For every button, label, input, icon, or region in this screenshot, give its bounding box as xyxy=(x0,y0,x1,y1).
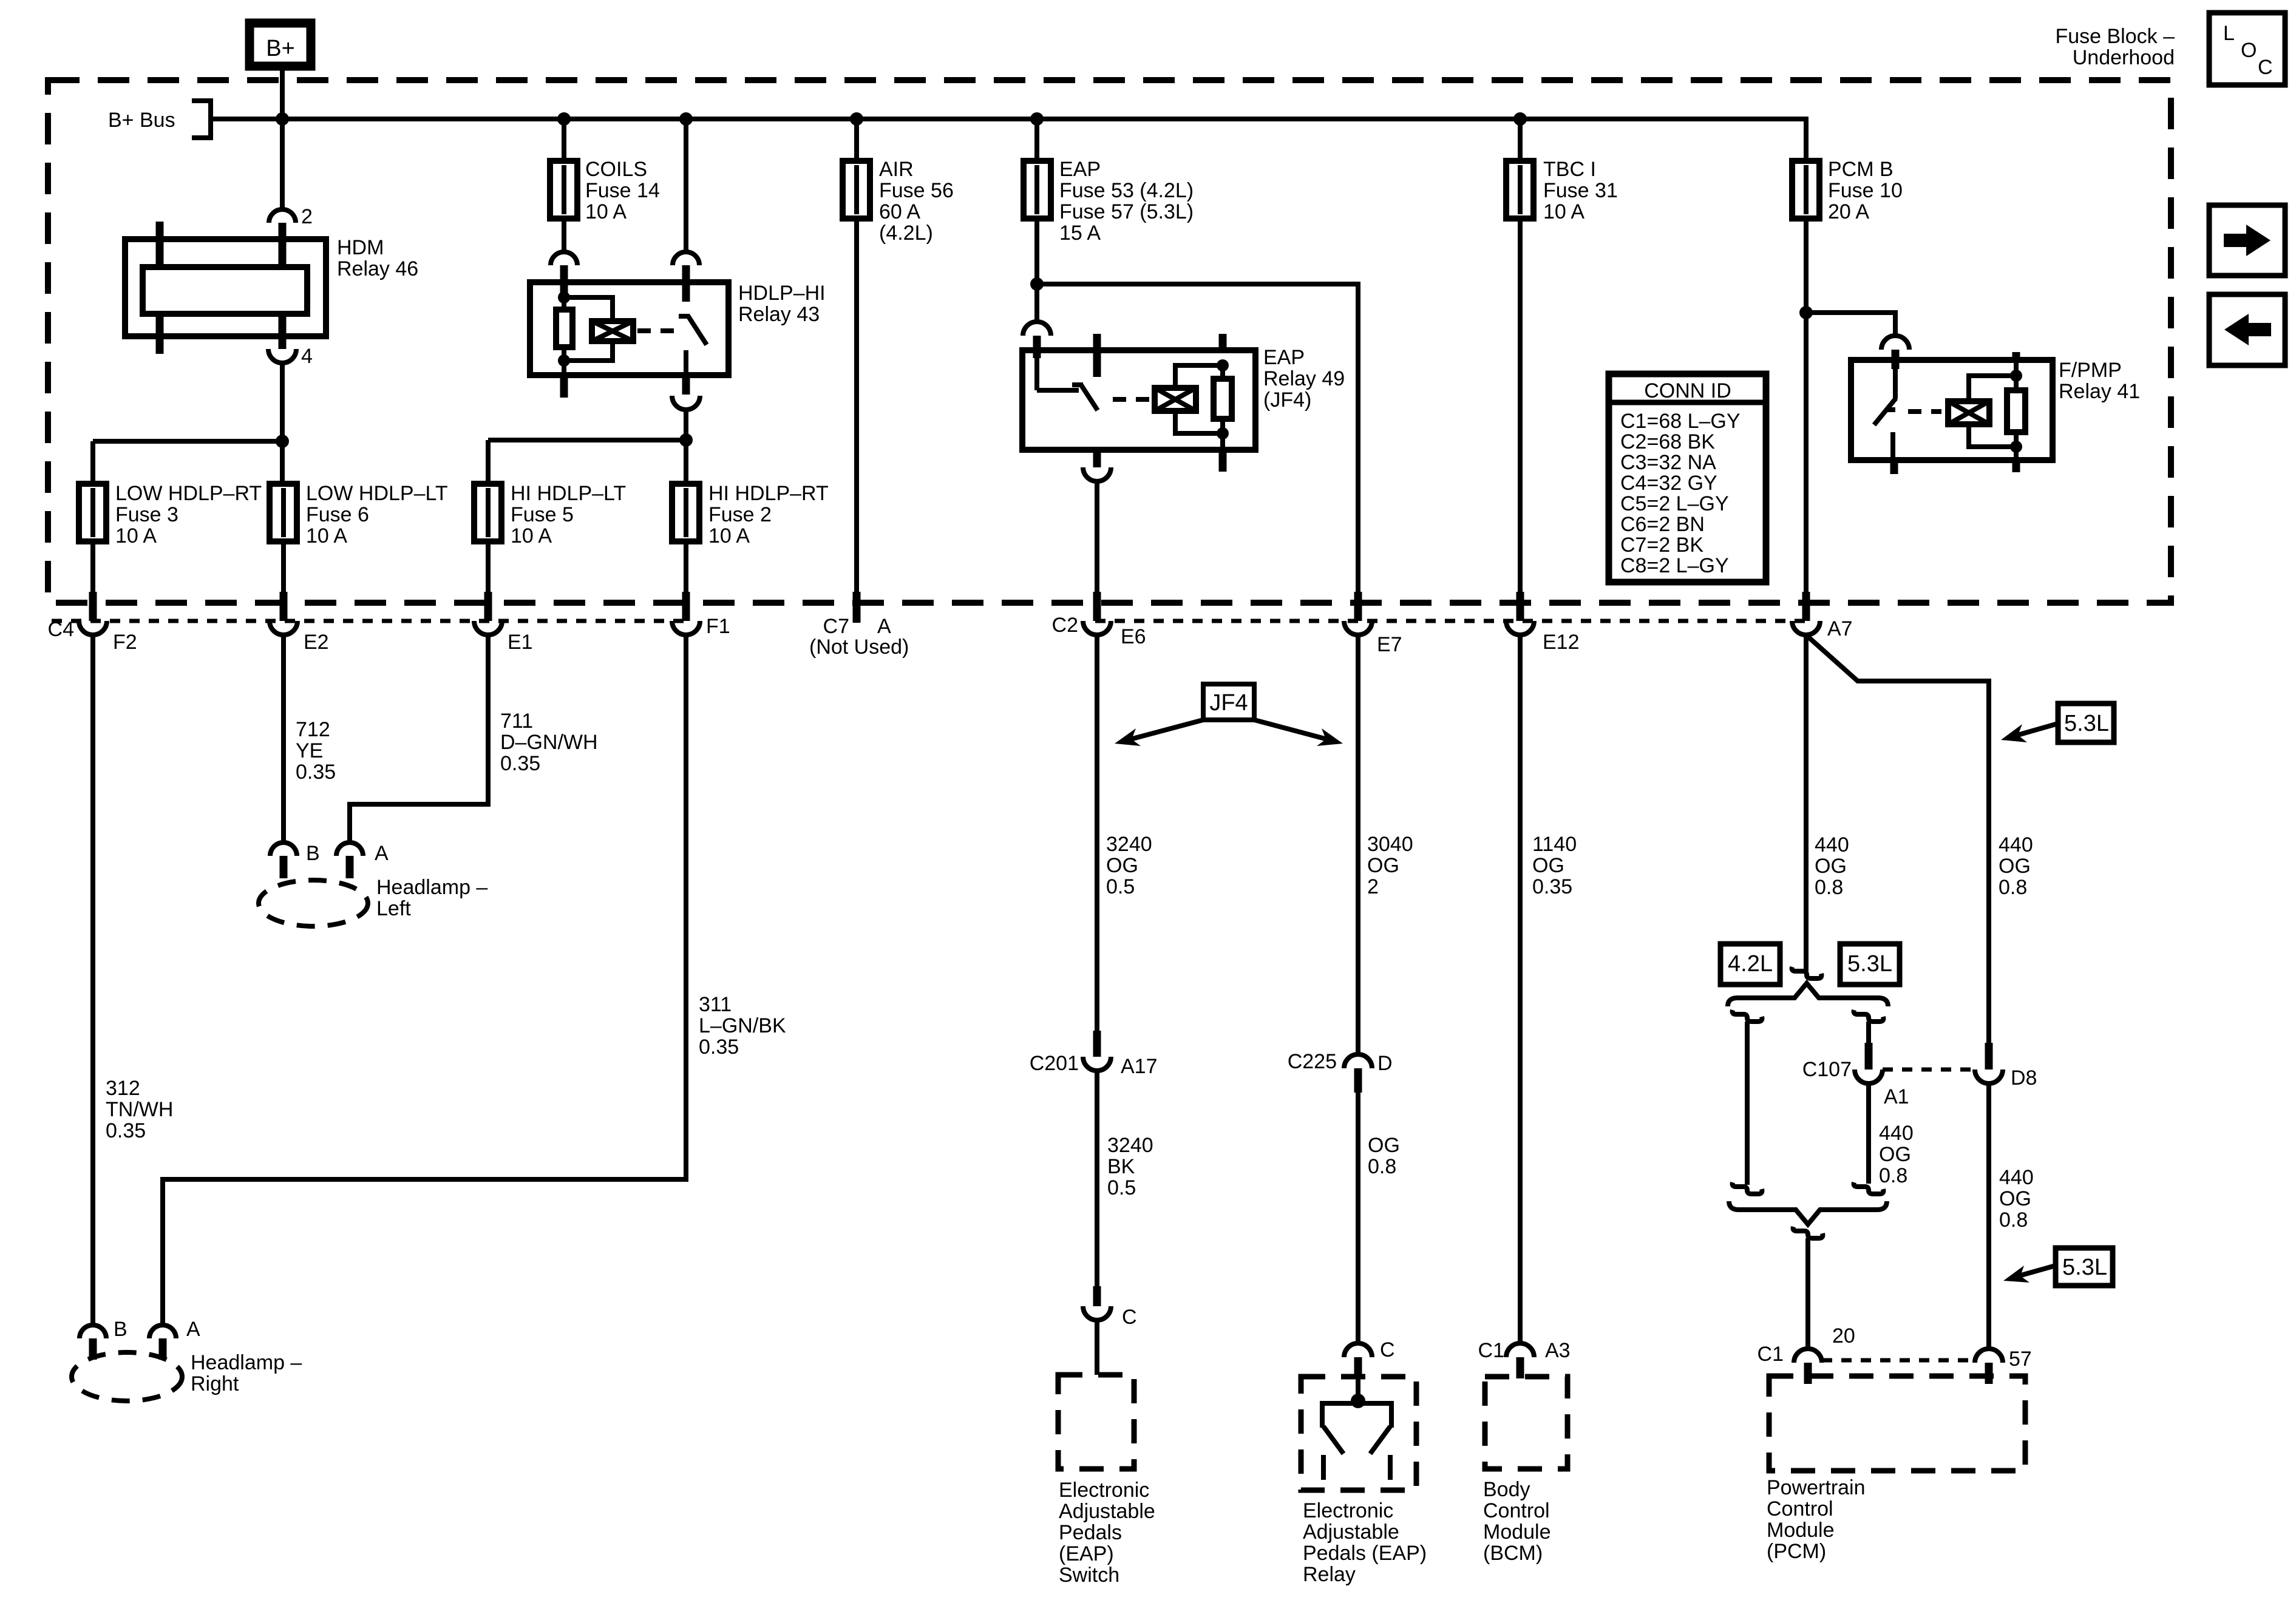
svg-text:OG: OG xyxy=(1367,854,1399,877)
LOC box xyxy=(2209,13,2285,85)
svg-text:(BCM): (BCM) xyxy=(1483,1542,1543,1565)
PCM box xyxy=(1769,1376,2025,1471)
B+ terminal box xyxy=(250,23,311,66)
svg-text:15 A: 15 A xyxy=(1059,222,1101,245)
connector E1 xyxy=(474,592,533,654)
svg-text:B+: B+ xyxy=(266,36,295,61)
engine split brace xyxy=(1728,983,1888,1006)
headlamp right body xyxy=(72,1351,302,1401)
wire C225 down to EAP relay connector xyxy=(1356,1093,1360,1343)
svg-text:0.8: 0.8 xyxy=(1999,876,2027,899)
left arrow box xyxy=(2209,294,2285,365)
svg-text:OG: OG xyxy=(1999,1187,2031,1210)
svg-text:3240: 3240 xyxy=(1106,833,1152,856)
svg-text:LOW HDLP–LT: LOW HDLP–LT xyxy=(306,482,448,505)
junction bus/coils fuse xyxy=(557,112,571,126)
wire label OG 0.8 xyxy=(1368,1134,1400,1178)
svg-text:Relay 49: Relay 49 xyxy=(1263,367,1345,390)
svg-text:COILS: COILS xyxy=(585,158,647,181)
svg-text:C225: C225 xyxy=(1288,1050,1337,1073)
Fuse Block label xyxy=(2055,25,2175,69)
svg-text:0.35: 0.35 xyxy=(699,1036,739,1059)
junction bus/eap fuse xyxy=(1030,112,1044,126)
svg-text:Underhood: Underhood xyxy=(2073,46,2175,69)
svg-text:Fuse Block –: Fuse Block – xyxy=(2055,25,2175,48)
svg-text:10 A: 10 A xyxy=(306,524,347,547)
wire bus to COILS fuse xyxy=(562,119,566,161)
svg-text:PCM B: PCM B xyxy=(1828,158,1894,181)
wire label 440 OG 0.8 lower right xyxy=(1999,1166,2034,1232)
svg-text:(Not Used): (Not Used) xyxy=(809,636,909,659)
wire A7 down to engine split xyxy=(1804,635,1809,971)
connector EAP relay input pin xyxy=(1023,322,1051,336)
wire into EAP switch xyxy=(1095,1320,1099,1375)
svg-text:C1=68 L–GY: C1=68 L–GY xyxy=(1620,410,1741,433)
svg-text:OG: OG xyxy=(1999,855,2031,878)
svg-text:57: 57 xyxy=(2009,1347,2032,1371)
svg-text:E1: E1 xyxy=(508,631,533,654)
svg-text:Relay 46: Relay 46 xyxy=(337,257,418,280)
wire relay43 output down xyxy=(684,410,688,484)
svg-text:CONN ID: CONN ID xyxy=(1644,379,1731,402)
svg-text:440: 440 xyxy=(1879,1122,1914,1145)
wire label 440 OG 0.8 right xyxy=(1999,833,2033,899)
svg-text:0.35: 0.35 xyxy=(296,761,336,784)
svg-text:B: B xyxy=(114,1318,127,1341)
wire label 3040 OG 2 xyxy=(1367,833,1413,898)
wire E2 down to headlamp left B xyxy=(281,635,286,842)
svg-text:3040: 3040 xyxy=(1367,833,1413,856)
svg-text:Electronic: Electronic xyxy=(1059,1479,1149,1502)
svg-text:0.35: 0.35 xyxy=(106,1119,146,1142)
svg-text:A: A xyxy=(375,842,389,865)
svg-text:EAP: EAP xyxy=(1263,346,1305,369)
svg-text:Electronic: Electronic xyxy=(1303,1499,1393,1522)
svg-text:4.2L: 4.2L xyxy=(1728,951,1773,977)
F/PMP Relay 41 xyxy=(1851,350,2140,474)
svg-text:EAP: EAP xyxy=(1059,158,1101,181)
svg-text:Fuse 14: Fuse 14 xyxy=(585,179,660,202)
svg-text:0.35: 0.35 xyxy=(1532,875,1572,898)
wire fuse5 to E1 xyxy=(486,541,491,592)
junction EAP branch xyxy=(1030,277,1044,291)
svg-text:TBC I: TBC I xyxy=(1543,158,1596,181)
svg-text:Relay 43: Relay 43 xyxy=(738,303,820,326)
HDLP-HI Relay 43 xyxy=(530,265,826,398)
wire label 311 L-GN/BK 0.35 xyxy=(699,993,786,1059)
svg-text:C201: C201 xyxy=(1030,1052,1079,1075)
svg-text:Right: Right xyxy=(191,1372,239,1395)
headlamp right connector A xyxy=(149,1318,200,1360)
svg-text:Headlamp –: Headlamp – xyxy=(191,1351,302,1374)
svg-text:D–GN/WH: D–GN/WH xyxy=(500,731,598,754)
wire label 440 OG 0.8 below C107 xyxy=(1879,1122,1914,1187)
4.2L tag xyxy=(1720,944,1780,985)
HDM Relay 46 xyxy=(125,222,418,354)
wire break above engine split xyxy=(1792,967,1822,978)
wire break above merge left xyxy=(1733,1182,1762,1194)
wire PCM B fuse to A7 xyxy=(1804,219,1809,592)
connector E7 xyxy=(1344,592,1402,656)
TBC I Fuse 31 xyxy=(1506,158,1618,223)
wire EAP relay output to E6 xyxy=(1095,481,1099,592)
svg-text:Pedals: Pedals xyxy=(1059,1521,1122,1544)
svg-text:C107: C107 xyxy=(1802,1058,1852,1081)
svg-text:0.8: 0.8 xyxy=(1368,1155,1396,1178)
svg-text:C: C xyxy=(1380,1338,1395,1361)
EAP switch box xyxy=(1058,1375,1134,1469)
svg-text:Fuse 56: Fuse 56 xyxy=(879,179,954,202)
wire branch to F/PMP relay xyxy=(1806,313,1895,336)
connector EAP relay output xyxy=(1083,467,1111,481)
svg-text:311: 311 xyxy=(699,993,732,1016)
svg-text:Switch: Switch xyxy=(1059,1564,1119,1587)
svg-text:(EAP): (EAP) xyxy=(1059,1542,1114,1565)
svg-text:HDLP–HI: HDLP–HI xyxy=(738,282,826,305)
svg-text:F2: F2 xyxy=(113,631,137,654)
svg-text:(JF4): (JF4) xyxy=(1263,388,1311,412)
svg-text:OG: OG xyxy=(1532,854,1564,877)
connector row dashed C107-D8 xyxy=(1883,1068,1975,1072)
wire EAP branch to E7 xyxy=(1037,284,1358,592)
HI HDLP-RT Fuse 2 xyxy=(672,482,829,547)
junction bus/air fuse xyxy=(850,112,863,126)
svg-text:712: 712 xyxy=(296,718,330,741)
svg-text:A1: A1 xyxy=(1884,1085,1909,1108)
svg-text:OG: OG xyxy=(1879,1143,1911,1166)
junction B+/bus xyxy=(276,112,289,126)
connector relay43 coil pin xyxy=(551,252,577,265)
svg-text:60 A: 60 A xyxy=(879,200,920,223)
wire E1 down and over to headlamp left A xyxy=(350,635,488,842)
svg-text:C4=32 GY: C4=32 GY xyxy=(1620,472,1717,495)
svg-text:10 A: 10 A xyxy=(511,524,552,547)
svg-text:C2: C2 xyxy=(1052,614,1078,637)
wire AIR fuse to C7 xyxy=(854,219,859,592)
svg-text:Pedals (EAP): Pedals (EAP) xyxy=(1303,1542,1427,1565)
svg-text:L: L xyxy=(2223,22,2235,45)
connector C4/F2 xyxy=(48,592,137,654)
svg-text:0.5: 0.5 xyxy=(1106,875,1135,898)
wire break above merge right xyxy=(1854,1182,1884,1194)
svg-text:Relay: Relay xyxy=(1303,1563,1356,1586)
wire bus to relay43 switch pin xyxy=(684,119,688,252)
svg-text:Fuse 2: Fuse 2 xyxy=(708,503,772,526)
svg-text:Fuse 53 (4.2L): Fuse 53 (4.2L) xyxy=(1059,179,1194,202)
svg-text:440: 440 xyxy=(1999,833,2033,856)
svg-text:OG: OG xyxy=(1815,855,1847,878)
connector C201/A17 xyxy=(1030,1031,1158,1078)
svg-text:A: A xyxy=(186,1318,200,1341)
svg-text:C: C xyxy=(1122,1306,1137,1329)
svg-text:A3: A3 xyxy=(1545,1339,1571,1362)
svg-text:D8: D8 xyxy=(2011,1066,2037,1090)
connector row dotted PCM xyxy=(1822,1358,1975,1363)
wire D8 down to PCM 57 xyxy=(1986,1083,1991,1349)
svg-text:O: O xyxy=(2241,39,2257,62)
svg-text:C3=32 NA: C3=32 NA xyxy=(1620,451,1716,474)
wire F2 down to headlamp right B xyxy=(90,635,95,1325)
wire C107 down to merge xyxy=(1866,1083,1871,1184)
svg-text:TN/WH: TN/WH xyxy=(106,1098,173,1121)
svg-text:E7: E7 xyxy=(1377,633,1402,656)
svg-text:C: C xyxy=(2258,56,2273,79)
svg-text:Adjustable: Adjustable xyxy=(1059,1500,1155,1523)
EAP switch label xyxy=(1059,1479,1155,1587)
connector C1/A3 of BCM xyxy=(1478,1339,1571,1378)
wire COILS fuse to relay43 coil xyxy=(562,219,566,252)
wire bus to TBC fuse xyxy=(1518,119,1523,161)
svg-text:0.8: 0.8 xyxy=(1999,1209,2028,1232)
svg-text:A7: A7 xyxy=(1827,617,1853,640)
svg-text:C1: C1 xyxy=(1478,1339,1504,1362)
svg-text:C7=2 BK: C7=2 BK xyxy=(1620,534,1703,557)
wire E7 down to C225 xyxy=(1356,635,1360,1056)
connector C7 stub (not used) xyxy=(809,592,909,659)
connector row dotted line left xyxy=(52,619,686,623)
wire fuse6 to E2 xyxy=(281,541,286,592)
junction bus/relay43 switch xyxy=(679,112,693,126)
wire bus to EAP fuse xyxy=(1034,119,1039,161)
B+ bus wire xyxy=(211,117,1806,121)
connector C107/A1 xyxy=(1802,1043,1909,1108)
connector E2 xyxy=(270,592,329,654)
wire label 440 OG 0.8 left xyxy=(1815,833,1849,899)
connector relay43 output xyxy=(672,396,700,410)
wire fuse3 to C4 xyxy=(90,541,95,592)
svg-text:C5=2 L–GY: C5=2 L–GY xyxy=(1620,492,1729,515)
svg-text:Left: Left xyxy=(376,897,411,920)
svg-text:2: 2 xyxy=(1367,875,1379,898)
svg-text:Control: Control xyxy=(1767,1497,1833,1520)
EAP Relay 49 xyxy=(1022,334,1345,472)
connector F/PMP relay input pin xyxy=(1881,336,1909,350)
svg-text:312: 312 xyxy=(106,1077,140,1100)
svg-text:Module: Module xyxy=(1767,1519,1835,1542)
svg-text:E6: E6 xyxy=(1121,625,1146,648)
svg-text:10 A: 10 A xyxy=(708,524,750,547)
connector C225/D xyxy=(1288,1050,1393,1093)
AIR Fuse 56 xyxy=(843,158,954,245)
JF4 tag xyxy=(1115,684,1343,746)
wire HDM pin4 down xyxy=(280,363,285,484)
headlamp left connector A xyxy=(336,842,389,878)
svg-text:Relay 41: Relay 41 xyxy=(2059,380,2140,403)
svg-text:Fuse 6: Fuse 6 xyxy=(306,503,369,526)
connector row dotted line right xyxy=(1095,619,1807,623)
wire label 1140 OG 0.35 xyxy=(1532,833,1577,898)
svg-text:B+ Bus: B+ Bus xyxy=(108,109,175,132)
BCM box xyxy=(1485,1377,1567,1469)
svg-text:3240: 3240 xyxy=(1107,1134,1153,1157)
wire label 3240 BK 0.5 xyxy=(1107,1134,1153,1199)
svg-text:YE: YE xyxy=(296,739,323,762)
svg-text:F/PMP: F/PMP xyxy=(2059,359,2122,382)
connector pin 2 of HDM relay xyxy=(269,205,313,267)
svg-text:HDM: HDM xyxy=(337,236,384,259)
5.3L arrow tag lower xyxy=(2003,1248,2113,1286)
LOW HDLP-LT Fuse 6 xyxy=(270,482,448,547)
svg-text:E2: E2 xyxy=(304,631,329,654)
svg-text:Fuse 3: Fuse 3 xyxy=(115,503,178,526)
connector A7 xyxy=(1792,592,1853,640)
svg-text:440: 440 xyxy=(1999,1166,2034,1189)
wire 5.3L branch down to D8 xyxy=(1986,679,1991,1043)
svg-text:C6=2 BN: C6=2 BN xyxy=(1620,513,1705,536)
svg-text:10 A: 10 A xyxy=(585,200,627,223)
wire fuse2 to F1 xyxy=(684,541,688,592)
svg-text:Adjustable: Adjustable xyxy=(1303,1520,1399,1544)
svg-text:10 A: 10 A xyxy=(115,524,157,547)
svg-text:F1: F1 xyxy=(706,615,730,638)
COILS Fuse 14 xyxy=(550,158,660,223)
svg-text:B: B xyxy=(306,842,320,865)
svg-text:HI HDLP–LT: HI HDLP–LT xyxy=(511,482,626,505)
svg-text:Powertrain: Powertrain xyxy=(1767,1476,1866,1499)
svg-text:Fuse 5: Fuse 5 xyxy=(511,503,574,526)
merge brace xyxy=(1729,1201,1887,1224)
connector C of EAP relay xyxy=(1344,1338,1395,1378)
fuse block dashed border xyxy=(48,80,2171,603)
svg-text:10 A: 10 A xyxy=(1543,200,1584,223)
connector D8 xyxy=(1975,1043,2037,1090)
svg-text:Body: Body xyxy=(1483,1478,1530,1501)
junction F/PMP branch xyxy=(1799,306,1813,319)
wire break below merge xyxy=(1793,1227,1823,1238)
svg-text:0.5: 0.5 xyxy=(1107,1176,1136,1199)
wire merge down to PCM C1 xyxy=(1805,1238,1810,1349)
connector C of EAP switch xyxy=(1083,1286,1137,1329)
wire branch to fuse 3 xyxy=(93,439,282,444)
wire E12 down to BCM xyxy=(1518,635,1523,1343)
wire 4.2L branch down xyxy=(1745,1022,1750,1185)
wire TBC fuse to E12 xyxy=(1518,219,1523,592)
svg-text:LOW HDLP–RT: LOW HDLP–RT xyxy=(115,482,262,505)
svg-text:Module: Module xyxy=(1483,1520,1551,1544)
5.3L tag xyxy=(1840,944,1900,985)
svg-text:JF4: JF4 xyxy=(1209,690,1248,716)
svg-text:440: 440 xyxy=(1815,833,1849,856)
PCM label xyxy=(1767,1476,1866,1563)
5.3L arrow tag upper xyxy=(2001,703,2114,742)
connector E12 xyxy=(1506,592,1580,654)
svg-text:D: D xyxy=(1377,1052,1393,1075)
CONN ID table xyxy=(1609,374,1766,582)
wire label 3240 OG 0.5 xyxy=(1106,833,1152,898)
wire break 5.3L branch xyxy=(1854,1010,1884,1022)
svg-text:A17: A17 xyxy=(1121,1055,1158,1078)
wire 5.3L branch down to C107 xyxy=(1866,1022,1871,1043)
BCM label xyxy=(1483,1478,1551,1565)
svg-text:20: 20 xyxy=(1832,1324,1855,1347)
svg-text:5.3L: 5.3L xyxy=(1847,951,1892,977)
svg-text:20 A: 20 A xyxy=(1828,200,1869,223)
B+ bus bracket xyxy=(192,101,211,138)
wire branch to fuse 5 xyxy=(488,438,686,442)
wire label 711 D-GN/WH 0.35 xyxy=(500,710,598,775)
svg-text:AIR: AIR xyxy=(879,158,914,181)
svg-text:C7: C7 xyxy=(823,615,849,638)
connector C1/20 of PCM xyxy=(1758,1324,1855,1384)
EAP relay label xyxy=(1303,1499,1427,1586)
EAP relay box xyxy=(1301,1377,1416,1490)
connector F1 xyxy=(672,592,730,638)
wire B+ down to bus xyxy=(280,66,285,209)
junction fuse5 branch xyxy=(679,433,693,447)
wire bus to AIR fuse xyxy=(854,119,859,161)
wire label 712 YE 0.35 xyxy=(296,718,336,784)
headlamp left connector B xyxy=(270,842,320,878)
svg-text:4: 4 xyxy=(301,345,313,368)
PCM B Fuse 10 xyxy=(1792,158,1903,223)
wire bus corner to PCM B fuse xyxy=(1804,117,1809,161)
right arrow box xyxy=(2209,205,2285,276)
svg-text:1140: 1140 xyxy=(1532,833,1577,856)
connector pin 4 of HDM relay xyxy=(268,345,313,368)
svg-text:0.35: 0.35 xyxy=(500,752,540,775)
wire A7 diagonal to 5.3L branch xyxy=(1807,636,1986,681)
wire break 4.2L branch xyxy=(1733,1010,1762,1022)
HI HDLP-LT Fuse 5 xyxy=(474,482,626,547)
svg-text:L–GN/BK: L–GN/BK xyxy=(699,1014,786,1037)
junction fuse3 branch xyxy=(276,435,289,448)
wire label 312 TN/WH 0.35 xyxy=(106,1077,173,1142)
svg-text:C4: C4 xyxy=(48,618,74,641)
svg-text:C8=2 L–GY: C8=2 L–GY xyxy=(1620,554,1729,577)
svg-text:Fuse 10: Fuse 10 xyxy=(1828,179,1903,202)
svg-text:5.3L: 5.3L xyxy=(2064,711,2109,736)
LOW HDLP-RT Fuse 3 xyxy=(79,482,262,547)
headlamp right connector B xyxy=(80,1318,127,1360)
svg-text:Fuse 31: Fuse 31 xyxy=(1543,179,1618,202)
svg-text:2: 2 xyxy=(301,205,313,228)
svg-text:OG: OG xyxy=(1368,1134,1400,1157)
EAP Fuse 53/57 xyxy=(1024,158,1194,245)
wire C201 down to EAP switch connector xyxy=(1095,1071,1099,1286)
wire F1 down and over to headlamp right A xyxy=(163,635,686,1325)
svg-text:BK: BK xyxy=(1107,1155,1135,1178)
connector E6 xyxy=(1052,592,1146,648)
junction bus/tbc fuse xyxy=(1513,112,1527,126)
connector 57 of PCM xyxy=(1975,1347,2032,1384)
svg-text:C1: C1 xyxy=(1758,1343,1784,1366)
svg-text:(PCM): (PCM) xyxy=(1767,1540,1826,1563)
svg-text:C2=68 BK: C2=68 BK xyxy=(1620,430,1715,453)
headlamp left body xyxy=(259,876,487,926)
svg-text:(4.2L): (4.2L) xyxy=(879,222,933,245)
svg-text:HI HDLP–RT: HI HDLP–RT xyxy=(708,482,829,505)
svg-text:5.3L: 5.3L xyxy=(2062,1255,2107,1280)
svg-text:E12: E12 xyxy=(1543,631,1580,654)
wire EAP fuse down xyxy=(1034,219,1039,322)
svg-text:Control: Control xyxy=(1483,1499,1550,1522)
svg-text:0.8: 0.8 xyxy=(1815,876,1843,899)
svg-text:711: 711 xyxy=(500,710,533,733)
svg-text:A: A xyxy=(877,615,891,638)
connector relay43 switch pin xyxy=(673,252,699,265)
svg-text:OG: OG xyxy=(1106,854,1138,877)
svg-text:Headlamp –: Headlamp – xyxy=(376,876,487,899)
svg-text:0.8: 0.8 xyxy=(1879,1164,1907,1187)
wire E6 down to C201 xyxy=(1095,635,1099,1031)
svg-text:Fuse 57 (5.3L): Fuse 57 (5.3L) xyxy=(1059,200,1194,223)
